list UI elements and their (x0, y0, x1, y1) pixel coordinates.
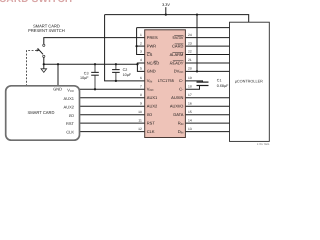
svg-text:DVCC: DVCC (174, 69, 184, 74)
svg-text:C2: C2 (123, 68, 128, 72)
svg-text:PWR: PWR (147, 43, 156, 48)
svg-text:10µF: 10µF (123, 73, 132, 77)
svg-text:CARD SWITCH: CARD SWITCH (0, 0, 72, 5)
svg-text:6: 6 (140, 76, 142, 80)
svg-text:8: 8 (140, 93, 142, 97)
svg-text:SMART CARD: SMART CARD (28, 110, 55, 115)
svg-text:DATA: DATA (173, 112, 183, 117)
svg-text:PRES: PRES (147, 35, 158, 40)
svg-text:I/O: I/O (147, 112, 152, 117)
svg-text:10µF: 10µF (80, 76, 89, 80)
svg-text:24: 24 (188, 33, 192, 37)
svg-text:DIN: DIN (178, 129, 184, 134)
svg-text:5: 5 (140, 67, 142, 71)
svg-text:15: 15 (188, 110, 192, 114)
svg-text:AUX1: AUX1 (147, 95, 158, 100)
svg-text:14: 14 (188, 118, 192, 122)
svg-text:1755 TA01: 1755 TA01 (257, 143, 270, 146)
svg-text:16: 16 (188, 101, 192, 105)
svg-text:CLK: CLK (66, 130, 74, 135)
svg-text:1: 1 (140, 33, 142, 37)
svg-text:µCONTROLLER: µCONTROLLER (235, 80, 263, 84)
svg-text:AUXI/O: AUXI/O (170, 104, 184, 109)
svg-text:VCC: VCC (67, 87, 74, 92)
svg-text:GND: GND (53, 87, 62, 92)
svg-text:18: 18 (188, 85, 192, 89)
svg-text:C3: C3 (84, 72, 89, 76)
svg-text:13: 13 (188, 127, 192, 131)
svg-text:I/O: I/O (69, 113, 74, 118)
svg-text:AUX1: AUX1 (64, 96, 75, 101)
svg-text:21: 21 (188, 58, 192, 62)
svg-text:VCC: VCC (147, 87, 154, 92)
svg-text:4: 4 (140, 58, 142, 62)
svg-text:19: 19 (188, 76, 192, 80)
svg-text:CLK: CLK (147, 129, 155, 134)
svg-text:17: 17 (188, 93, 192, 97)
svg-text:NC/SD: NC/SD (147, 60, 160, 65)
svg-text:11: 11 (138, 118, 142, 122)
svg-text:AUXIN: AUXIN (171, 95, 183, 100)
svg-text:23: 23 (188, 41, 192, 45)
svg-text:10: 10 (138, 110, 142, 114)
svg-text:AUX2: AUX2 (64, 104, 75, 109)
svg-text:AUX2: AUX2 (147, 104, 158, 109)
svg-text:3.3V: 3.3V (162, 3, 170, 7)
svg-text:20: 20 (188, 67, 192, 71)
svg-text:GND: GND (147, 69, 156, 74)
svg-text:9: 9 (140, 101, 142, 105)
svg-text:RST: RST (147, 120, 156, 125)
svg-text:VIN: VIN (147, 78, 152, 83)
svg-text:0.68µF: 0.68µF (217, 84, 229, 88)
svg-text:RIN: RIN (178, 120, 184, 125)
svg-text:22: 22 (188, 50, 192, 54)
svg-text:LTC1755: LTC1755 (158, 78, 175, 83)
svg-text:C1: C1 (217, 78, 222, 82)
svg-text:READY: READY (170, 60, 184, 65)
svg-text:7: 7 (140, 85, 142, 89)
svg-text:12: 12 (138, 127, 142, 131)
svg-text:RST: RST (66, 121, 75, 126)
svg-text:PRESENT SWITCH: PRESENT SWITCH (28, 28, 65, 33)
svg-text:3: 3 (140, 50, 142, 54)
svg-text:2: 2 (140, 41, 142, 45)
